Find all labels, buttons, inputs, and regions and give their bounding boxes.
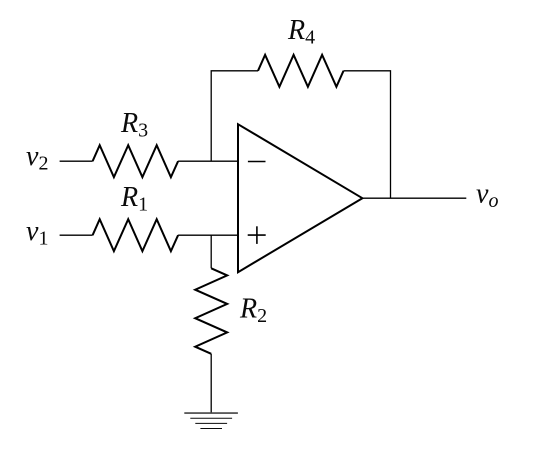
wire R3 to inverting input — [178, 160, 238, 162]
op-amp U1 — [238, 124, 362, 272]
op-amp non-inverting input marker — [248, 226, 266, 244]
wire feedback vertical left (node A) — [211, 71, 258, 161]
wire op-amp output to vo — [362, 197, 466, 199]
ground — [184, 413, 238, 428]
wire v1 to R1 — [60, 234, 93, 236]
resistor R2 — [195, 268, 227, 354]
resistor R3 — [93, 145, 179, 177]
wire R1 to non-inverting input — [178, 234, 238, 236]
wire R2 to ground — [210, 354, 212, 413]
wire v2 to R3 — [60, 160, 93, 162]
resistor R1 — [93, 219, 179, 251]
resistor R4 — [258, 55, 344, 87]
wire R4 to output node — [344, 71, 391, 198]
wire non-inverting node to R2 — [210, 235, 212, 268]
op-amp inverting input marker — [248, 161, 266, 163]
